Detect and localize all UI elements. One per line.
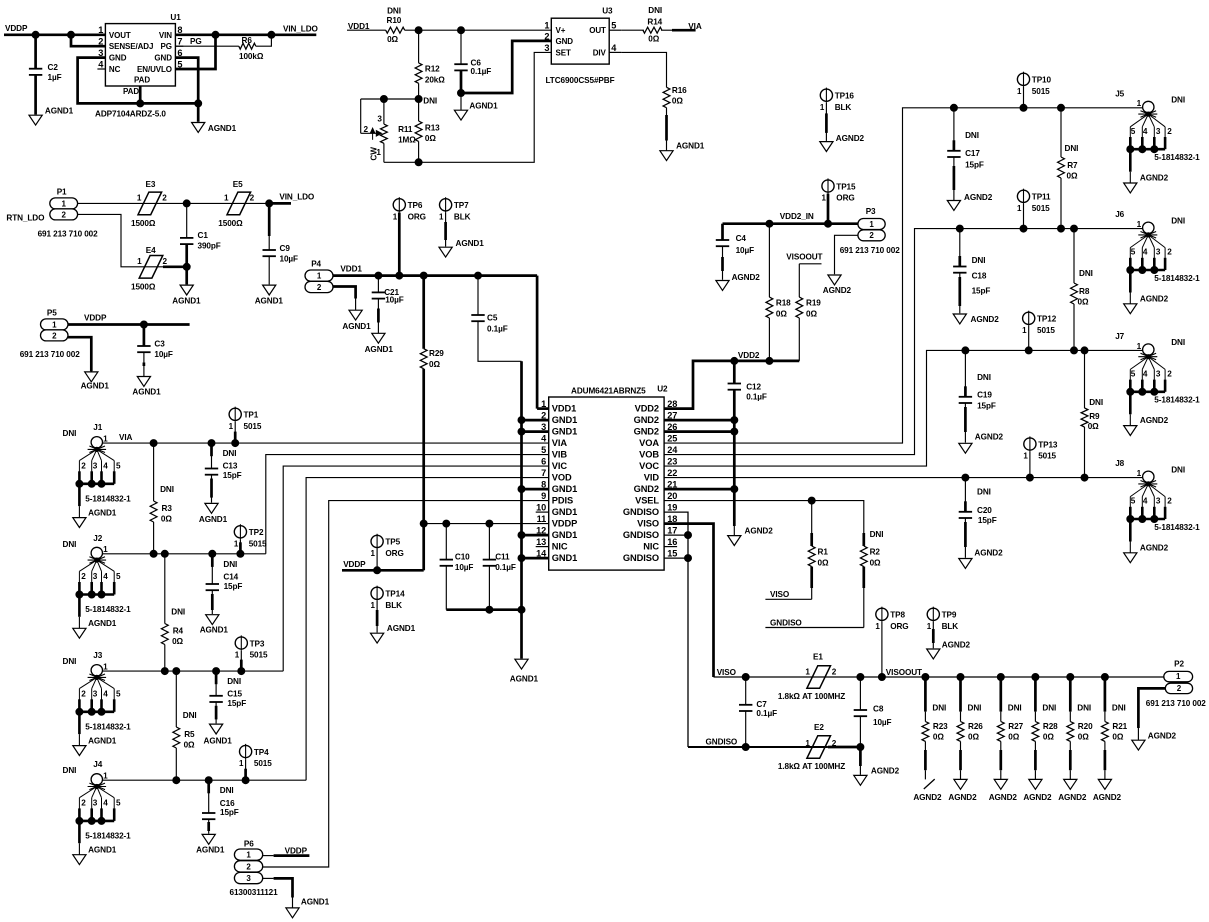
svg-text:61300311121: 61300311121 bbox=[230, 888, 279, 897]
junction C12 tap bbox=[731, 357, 738, 364]
wire EN/UVLO pin 5 up to VIN bbox=[175, 35, 215, 69]
svg-text:AGND1: AGND1 bbox=[172, 297, 201, 306]
svg-text:J6: J6 bbox=[1115, 210, 1124, 219]
svg-text:2: 2 bbox=[364, 125, 369, 134]
wire DIV pin 4 to R16 bbox=[621, 52, 666, 87]
ground AGND1 under C3 bbox=[137, 377, 150, 387]
svg-text:R8: R8 bbox=[1079, 287, 1090, 296]
svg-text:1: 1 bbox=[821, 194, 826, 203]
svg-text:691 213 710 002: 691 213 710 002 bbox=[1146, 699, 1207, 708]
wire R29 to VDDP pin 11 node bbox=[422, 369, 425, 524]
resistor R10 0R DNI bbox=[386, 27, 405, 33]
junction C9 tap bbox=[266, 200, 273, 207]
svg-text:TP9: TP9 bbox=[942, 611, 957, 620]
svg-text:U2: U2 bbox=[657, 385, 668, 394]
svg-text:VIB: VIB bbox=[552, 450, 568, 460]
svg-text:2: 2 bbox=[317, 283, 322, 292]
capacitor C1 390pF bbox=[186, 203, 188, 238]
svg-text:GND1: GND1 bbox=[552, 427, 577, 437]
svg-text:5: 5 bbox=[611, 21, 616, 31]
svg-text:ADP7104ARDZ-5.0: ADP7104ARDZ-5.0 bbox=[95, 110, 166, 119]
node VIA output label bbox=[672, 29, 696, 32]
svg-text:AGND2: AGND2 bbox=[1058, 793, 1087, 802]
svg-text:GND2: GND2 bbox=[634, 484, 659, 494]
svg-text:5015: 5015 bbox=[254, 759, 272, 768]
svg-text:100kΩ: 100kΩ bbox=[239, 52, 264, 61]
resistor R18 0R bbox=[768, 224, 770, 297]
svg-text:AGND2: AGND2 bbox=[971, 315, 1000, 324]
svg-text:C1: C1 bbox=[198, 231, 209, 240]
ground AGND2 under R20 bbox=[1064, 779, 1077, 789]
wire pin 11 row bbox=[424, 523, 549, 525]
svg-text:10µF: 10µF bbox=[736, 246, 755, 255]
svg-text:3: 3 bbox=[93, 799, 98, 808]
junction R7 top bbox=[1058, 104, 1065, 111]
wire E4 to C1 bottom node bbox=[163, 265, 187, 268]
svg-text:1: 1 bbox=[805, 739, 810, 748]
svg-text:PAD: PAD bbox=[123, 87, 139, 96]
junction PAD rail bbox=[137, 100, 144, 107]
svg-text:R14: R14 bbox=[647, 18, 662, 27]
test point TP2 5015 bbox=[234, 526, 246, 538]
svg-text:0Ω: 0Ω bbox=[1112, 733, 1123, 742]
wire R11/R13 bottom to SET pin bbox=[384, 52, 551, 162]
svg-text:BLK: BLK bbox=[835, 103, 852, 112]
svg-text:14: 14 bbox=[536, 549, 547, 559]
svg-text:1500Ω: 1500Ω bbox=[218, 219, 243, 228]
svg-text:1: 1 bbox=[229, 422, 234, 431]
svg-text:OUT: OUT bbox=[589, 26, 606, 35]
junction R6 at VIN rail bbox=[268, 31, 275, 38]
svg-text:AGND1: AGND1 bbox=[208, 124, 237, 133]
svg-text:1: 1 bbox=[52, 320, 57, 329]
junction R9 top bbox=[1081, 347, 1088, 354]
ground AGND1 under U2 bbox=[515, 659, 528, 669]
svg-text:5: 5 bbox=[116, 572, 121, 581]
svg-text:VIA: VIA bbox=[688, 22, 702, 31]
junction TP5 tap bbox=[374, 567, 381, 574]
wire VDDP to U1 pin 1 bbox=[4, 33, 105, 36]
junction TP4 tap bbox=[242, 777, 249, 784]
svg-text:1: 1 bbox=[439, 212, 444, 221]
svg-text:3: 3 bbox=[1156, 248, 1161, 257]
junction TP3 tap bbox=[238, 668, 245, 675]
svg-text:P3: P3 bbox=[866, 207, 876, 216]
wire VDDP to pin 11 riser bbox=[342, 569, 424, 572]
svg-text:R28: R28 bbox=[1043, 722, 1058, 731]
svg-text:AGND2: AGND2 bbox=[823, 286, 852, 295]
resistor R5 0R DNI bbox=[175, 671, 177, 727]
resistor R9 0R DNI bbox=[1084, 350, 1086, 408]
svg-text:4: 4 bbox=[1143, 497, 1148, 506]
svg-text:15pF: 15pF bbox=[227, 699, 246, 708]
svg-text:DNI: DNI bbox=[220, 786, 234, 795]
svg-text:DNI: DNI bbox=[223, 449, 237, 458]
svg-text:C4: C4 bbox=[736, 234, 747, 243]
svg-text:24: 24 bbox=[667, 445, 678, 455]
svg-text:E5: E5 bbox=[233, 180, 243, 189]
test point TP12 5015 bbox=[1023, 312, 1035, 324]
junction R29 tap bbox=[420, 272, 427, 279]
junction R18 tap bbox=[766, 220, 773, 227]
wire VID row U2 pin 22 to J8 bbox=[664, 477, 1143, 479]
wire VIC row J3 to riser bbox=[102, 670, 283, 672]
ferrite bead E5 1500R bbox=[227, 192, 251, 215]
svg-text:VIN: VIN bbox=[159, 31, 172, 40]
svg-text:VDDP: VDDP bbox=[285, 846, 308, 855]
svg-text:R27: R27 bbox=[1008, 722, 1023, 731]
svg-text:15pF: 15pF bbox=[978, 516, 997, 525]
ground AGND1 under R16 bbox=[660, 151, 673, 161]
resistor R6 100k bbox=[239, 43, 256, 49]
svg-text:ADUM6421ABRNZ5: ADUM6421ABRNZ5 bbox=[571, 387, 646, 396]
svg-text:TP5: TP5 bbox=[385, 538, 400, 547]
svg-text:0Ω: 0Ω bbox=[425, 134, 436, 143]
svg-text:0Ω: 0Ω bbox=[933, 733, 944, 742]
svg-text:U3: U3 bbox=[602, 7, 613, 16]
svg-text:CW: CW bbox=[369, 147, 378, 161]
U2 unconnected stubs pins 10 13 16 bbox=[536, 511, 549, 513]
wire VIB row J2 to riser bbox=[102, 553, 265, 555]
svg-text:AGND2: AGND2 bbox=[974, 549, 1003, 558]
svg-text:15pF: 15pF bbox=[223, 471, 242, 480]
svg-text:VDDP: VDDP bbox=[343, 560, 366, 569]
wire PDIS row U2 pin 9 to P6 pin 2 bbox=[263, 501, 549, 867]
junction TP13 tap bbox=[1026, 474, 1033, 481]
junction R3 top bbox=[150, 440, 157, 447]
junction C10 tap bbox=[443, 520, 450, 527]
svg-text:DNI: DNI bbox=[1171, 96, 1185, 105]
resistor R23 0R DNI bbox=[924, 677, 927, 712]
junction C8 bottom bbox=[857, 744, 864, 751]
wire TP8 stem bbox=[881, 622, 883, 677]
svg-text:R4: R4 bbox=[173, 627, 184, 636]
svg-text:GND2: GND2 bbox=[634, 427, 659, 437]
svg-text:3: 3 bbox=[1156, 497, 1161, 506]
svg-text:AGND1: AGND1 bbox=[387, 624, 416, 633]
svg-text:5: 5 bbox=[1131, 497, 1136, 506]
svg-text:0Ω: 0Ω bbox=[806, 310, 817, 319]
junction R13 bottom bbox=[415, 159, 422, 166]
capacitor C16 15pF DNI bbox=[208, 780, 210, 813]
svg-text:GND: GND bbox=[154, 54, 172, 63]
svg-text:1: 1 bbox=[1017, 204, 1022, 213]
junction TP2 tap bbox=[237, 550, 244, 557]
svg-text:AGND1: AGND1 bbox=[199, 515, 228, 524]
junction R4 top bbox=[161, 550, 168, 557]
resistor R13 0R bbox=[418, 99, 420, 121]
svg-text:DNI: DNI bbox=[223, 560, 237, 569]
svg-text:2: 2 bbox=[1167, 248, 1172, 257]
svg-text:R12: R12 bbox=[425, 65, 440, 74]
wire VOD row J4 to riser bbox=[102, 779, 306, 781]
svg-text:1: 1 bbox=[1176, 672, 1181, 681]
node VISO label bar bbox=[765, 598, 811, 600]
svg-text:0Ω: 0Ω bbox=[1078, 733, 1089, 742]
svg-text:P2: P2 bbox=[1174, 660, 1184, 669]
svg-text:2: 2 bbox=[81, 572, 86, 581]
junction C20 tap bbox=[962, 474, 969, 481]
resistor R16 0R bbox=[663, 87, 670, 107]
svg-text:J4: J4 bbox=[93, 760, 102, 769]
test point TP5 ORG bbox=[371, 535, 383, 547]
capacitor C2 1uF bbox=[34, 35, 37, 69]
junction C13 tap bbox=[208, 440, 215, 447]
ground AGND2 under C20 bbox=[959, 559, 972, 569]
svg-text:R26: R26 bbox=[968, 722, 983, 731]
wire U1 right GND pin 6 down bbox=[175, 58, 198, 104]
svg-text:1: 1 bbox=[239, 759, 244, 768]
svg-text:C17: C17 bbox=[965, 149, 980, 158]
svg-text:R18: R18 bbox=[776, 298, 791, 307]
ground AGND1 under C14 bbox=[206, 615, 219, 625]
svg-text:5015: 5015 bbox=[249, 539, 267, 548]
wire VDD2 riser from U2 pin 28 bbox=[664, 361, 799, 409]
test point TP4 5015 bbox=[240, 745, 252, 757]
capacitor C21 10uF bbox=[377, 276, 379, 293]
wire TP10 stem bbox=[1023, 87, 1025, 108]
svg-text:DNI: DNI bbox=[977, 373, 991, 382]
ground AGND2 at P3 pin2 bbox=[828, 275, 841, 285]
test point TP3 5015 bbox=[235, 637, 247, 649]
svg-text:13: 13 bbox=[536, 537, 546, 547]
svg-text:AGND1: AGND1 bbox=[456, 239, 485, 248]
svg-text:0Ω: 0Ω bbox=[1043, 733, 1054, 742]
svg-text:VISOOUT: VISOOUT bbox=[786, 253, 822, 262]
svg-text:GNDISO: GNDISO bbox=[706, 737, 738, 746]
svg-text:AGND2: AGND2 bbox=[1140, 174, 1169, 183]
svg-text:1: 1 bbox=[103, 772, 108, 781]
wire PG to R6 bbox=[175, 45, 238, 47]
wire TP7 stem to ground bbox=[445, 213, 447, 247]
svg-text:3: 3 bbox=[377, 114, 382, 123]
svg-text:1: 1 bbox=[137, 257, 142, 266]
svg-text:R20: R20 bbox=[1078, 722, 1093, 731]
test point TP7 BLK bbox=[440, 199, 452, 211]
svg-text:C11: C11 bbox=[495, 553, 510, 562]
wire VOC from U2 pin 23 up to J7 row bbox=[664, 350, 1143, 466]
svg-text:0.1µF: 0.1µF bbox=[746, 393, 767, 402]
wire PAD to ground rail bbox=[139, 86, 142, 103]
svg-text:AGND2: AGND2 bbox=[1140, 416, 1169, 425]
svg-text:DNI: DNI bbox=[423, 97, 437, 106]
resistor R14 0R DNI bbox=[621, 29, 644, 31]
ferrite bead E1 1.8k bbox=[807, 666, 831, 689]
op-amp U3 LTC6900 oscillator body bbox=[551, 18, 609, 64]
svg-text:4: 4 bbox=[103, 572, 108, 581]
svg-text:5: 5 bbox=[116, 799, 121, 808]
svg-text:VIA: VIA bbox=[552, 438, 568, 448]
svg-text:DNI: DNI bbox=[387, 7, 401, 16]
svg-text:AGND1: AGND1 bbox=[88, 736, 117, 745]
svg-text:2: 2 bbox=[1167, 369, 1172, 378]
ground AGND1 under C6 bbox=[454, 110, 467, 120]
wire R6 to VIN rail bbox=[256, 35, 272, 46]
resistor R19 0R bbox=[798, 264, 800, 297]
svg-text:BLK: BLK bbox=[942, 622, 959, 631]
svg-text:AGND2: AGND2 bbox=[836, 134, 865, 143]
ground AGND1 under C1 bbox=[180, 285, 193, 295]
ground AGND1 under C15 bbox=[210, 724, 223, 734]
svg-text:10µF: 10µF bbox=[154, 350, 173, 359]
svg-text:C16: C16 bbox=[220, 799, 235, 808]
svg-text:TP8: TP8 bbox=[890, 611, 905, 620]
resistor R29 0R bbox=[422, 276, 425, 349]
svg-text:2: 2 bbox=[162, 194, 167, 203]
svg-text:2: 2 bbox=[163, 257, 168, 266]
junction VDDP pin11 node bbox=[420, 520, 427, 527]
svg-text:AGND1: AGND1 bbox=[81, 382, 110, 391]
svg-text:AGND1: AGND1 bbox=[45, 107, 74, 116]
wire TP2 stem bbox=[239, 540, 241, 554]
svg-text:1: 1 bbox=[1137, 220, 1142, 229]
ground AGND2 under TP9 bbox=[927, 649, 940, 659]
svg-text:1: 1 bbox=[103, 545, 108, 554]
svg-text:R21: R21 bbox=[1112, 722, 1127, 731]
capacitor C20 15pF DNI bbox=[964, 478, 966, 512]
svg-text:0.1µF: 0.1µF bbox=[471, 67, 492, 76]
svg-text:4: 4 bbox=[1143, 369, 1148, 378]
wire to AGND1 bbox=[197, 103, 200, 121]
svg-text:VSEL: VSEL bbox=[635, 496, 659, 506]
connector P1 header 691 213 710 002 bbox=[50, 198, 78, 209]
svg-text:R11: R11 bbox=[398, 125, 413, 134]
ground AGND2 of J6 bbox=[1124, 304, 1137, 314]
svg-text:390pF: 390pF bbox=[198, 241, 221, 250]
svg-text:15: 15 bbox=[667, 549, 677, 559]
ground AGND1 at P6 pin3 bbox=[286, 908, 299, 918]
capacitor C12 0.1uF bbox=[733, 361, 736, 384]
wire VOB from U2 pin 24 up to J6 row bbox=[664, 229, 1143, 455]
svg-text:DNI: DNI bbox=[63, 657, 77, 666]
svg-text:0Ω: 0Ω bbox=[672, 97, 683, 106]
svg-text:VISO: VISO bbox=[717, 668, 737, 677]
svg-text:DNI: DNI bbox=[1042, 704, 1056, 713]
svg-text:R23: R23 bbox=[933, 722, 948, 731]
ground AGND2 under C8 bbox=[854, 775, 867, 785]
svg-text:DNI: DNI bbox=[1171, 216, 1185, 225]
junction R1 tap bbox=[808, 497, 815, 504]
svg-text:1: 1 bbox=[317, 272, 322, 281]
connector P6 header 61300311121 bbox=[234, 849, 262, 860]
wire TP15 stem bbox=[827, 194, 830, 224]
svg-text:AGND2: AGND2 bbox=[948, 793, 977, 802]
wire down to AGND1 bbox=[185, 267, 188, 285]
capacitor C13 15pF DNI bbox=[211, 443, 213, 468]
svg-text:AGND2: AGND2 bbox=[1023, 793, 1052, 802]
svg-text:C9: C9 bbox=[280, 244, 291, 253]
svg-text:TP11: TP11 bbox=[1032, 193, 1051, 202]
svg-text:VISOOUT: VISOOUT bbox=[886, 668, 922, 677]
svg-text:DNI: DNI bbox=[1065, 144, 1079, 153]
svg-text:7: 7 bbox=[177, 37, 182, 47]
resistor R2 0R DNI bbox=[862, 533, 865, 546]
svg-text:DNI: DNI bbox=[160, 485, 174, 494]
wire TP14 stem bbox=[376, 601, 378, 633]
svg-text:V+: V+ bbox=[556, 26, 566, 35]
op-amp U1 ADP7104ARDZ-5.0 regulator body bbox=[105, 24, 175, 86]
svg-text:E3: E3 bbox=[146, 180, 156, 189]
resistor R12 20k bbox=[418, 30, 420, 63]
svg-text:5-1814832-1: 5-1814832-1 bbox=[1154, 274, 1200, 283]
junction TP15 tap bbox=[825, 220, 832, 227]
ground AGND1 under C2 bbox=[29, 115, 42, 125]
svg-text:1: 1 bbox=[371, 601, 376, 610]
capacitor C17 15pF DNI bbox=[953, 108, 955, 151]
svg-text:10µF: 10µF bbox=[873, 718, 892, 727]
svg-text:15pF: 15pF bbox=[977, 401, 996, 410]
svg-text:AGND2: AGND2 bbox=[964, 193, 993, 202]
svg-text:5: 5 bbox=[541, 445, 546, 455]
wire TP6 stem bbox=[398, 213, 401, 276]
svg-text:4: 4 bbox=[1143, 248, 1148, 257]
svg-text:0.1µF: 0.1µF bbox=[487, 324, 508, 333]
svg-text:VOA: VOA bbox=[639, 438, 659, 448]
capacitor C8 10uF bbox=[859, 677, 861, 710]
resistor R4 0R DNI bbox=[164, 554, 166, 624]
wire P1 pin2 to E4 bbox=[78, 214, 163, 266]
svg-text:TP6: TP6 bbox=[408, 201, 423, 210]
svg-text:5: 5 bbox=[1131, 127, 1136, 136]
ground AGND1 under C9 bbox=[263, 285, 276, 295]
svg-text:TP16: TP16 bbox=[835, 92, 855, 101]
svg-text:AGND1: AGND1 bbox=[469, 101, 498, 110]
svg-text:2: 2 bbox=[1167, 497, 1172, 506]
ground AGND1 under TP14 bbox=[371, 633, 384, 643]
svg-text:C18: C18 bbox=[972, 272, 987, 281]
junction R23 tap bbox=[922, 674, 929, 681]
svg-text:TP2: TP2 bbox=[249, 528, 264, 537]
svg-text:19: 19 bbox=[667, 503, 677, 513]
junction TP6 tap bbox=[396, 272, 403, 279]
wire P4 pin2 to ground bbox=[333, 287, 356, 299]
svg-text:12: 12 bbox=[536, 526, 546, 536]
wire VISO from U2 pin 18 down bbox=[664, 524, 713, 677]
junction GND1 pin2 bbox=[518, 417, 525, 424]
connector P5 header 691 213 710 002 bbox=[41, 319, 69, 330]
ground AGND2 under GND2 trunk bbox=[728, 536, 741, 546]
svg-text:VDDP: VDDP bbox=[84, 313, 107, 322]
junction R5 bottom bbox=[173, 777, 180, 784]
svg-text:5-1814832-1: 5-1814832-1 bbox=[1154, 396, 1200, 405]
svg-text:1: 1 bbox=[224, 194, 229, 203]
svg-text:BLK: BLK bbox=[454, 212, 471, 221]
svg-text:AGND1: AGND1 bbox=[88, 508, 117, 517]
svg-text:3: 3 bbox=[1156, 369, 1161, 378]
svg-text:10: 10 bbox=[536, 503, 546, 513]
svg-text:TP10: TP10 bbox=[1032, 76, 1052, 85]
junction C14 tap bbox=[209, 550, 216, 557]
svg-text:DNI: DNI bbox=[1079, 269, 1093, 278]
svg-text:1: 1 bbox=[235, 651, 240, 660]
svg-text:1: 1 bbox=[371, 549, 376, 558]
junction R5 top bbox=[173, 668, 180, 675]
svg-text:AGND1: AGND1 bbox=[132, 388, 161, 397]
svg-text:AGND1: AGND1 bbox=[200, 626, 229, 635]
capacitor C7 0.1uF bbox=[745, 677, 747, 705]
wire VDD2_IN rail bbox=[723, 222, 858, 225]
svg-text:ORG: ORG bbox=[385, 549, 403, 558]
svg-text:2: 2 bbox=[869, 231, 874, 240]
svg-text:0Ω: 0Ω bbox=[172, 637, 183, 646]
svg-text:5: 5 bbox=[1131, 369, 1136, 378]
svg-text:4: 4 bbox=[103, 461, 108, 470]
wire R16 to AGND1 bbox=[666, 108, 668, 151]
svg-text:1: 1 bbox=[1022, 326, 1027, 335]
svg-text:PAD: PAD bbox=[134, 76, 150, 85]
wire P5 pin2 to ground bbox=[68, 337, 91, 371]
capacitor C19 15pF DNI bbox=[964, 350, 966, 396]
